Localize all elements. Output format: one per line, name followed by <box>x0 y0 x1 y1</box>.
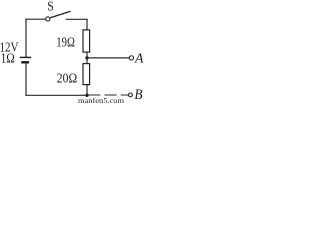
svg-text:S: S <box>47 0 54 15</box>
svg-text:B: B <box>134 87 143 103</box>
battery positive plate (long) <box>20 56 31 58</box>
wire left vertical upper <box>25 19 27 57</box>
svg-text:A: A <box>134 52 144 67</box>
svg-text:20Ω: 20Ω <box>57 71 77 86</box>
wire bottom horizontal <box>26 94 88 96</box>
wire top-left horizontal <box>26 18 46 20</box>
svg-text:1Ω: 1Ω <box>1 51 15 66</box>
wire switch fixed contact <box>66 18 88 20</box>
terminal A circle <box>129 56 133 60</box>
svg-text:manfen5.com: manfen5.com <box>78 97 124 104</box>
wire left vertical lower <box>25 64 27 96</box>
svg-text:19Ω: 19Ω <box>56 35 75 50</box>
wire dashed to terminal B <box>88 94 128 96</box>
wire below R2 <box>86 85 88 96</box>
wire to terminal A <box>87 57 129 59</box>
switch S blade <box>50 11 70 17</box>
wire between R1 and R2 <box>86 52 88 64</box>
resistor R2 20ohm <box>83 64 90 85</box>
terminal B circle <box>129 93 133 97</box>
wire right vertical into R1 <box>86 19 88 31</box>
node junction dot upper <box>85 56 88 59</box>
node junction dot lower <box>85 94 88 97</box>
switch S pivot <box>46 17 50 21</box>
battery negative plate (short thick) <box>21 61 29 63</box>
resistor R1 19ohm <box>83 30 90 52</box>
